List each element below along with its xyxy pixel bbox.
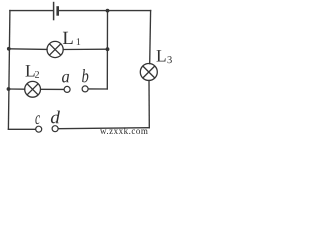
wire top-right (battery - terminal to right corner) bbox=[59, 10, 151, 12]
battery cell bbox=[54, 2, 58, 21]
lamp L3 bbox=[140, 64, 157, 81]
wire L2 branch middle (lamp L2 to terminal a) bbox=[41, 88, 64, 90]
wire right vertical lower (lamp L3 to bottom corner) bbox=[148, 80, 150, 127]
label d bbox=[51, 111, 60, 124]
svg-text:w.zxxk.com: w.zxxk.com bbox=[100, 126, 148, 135]
label a bbox=[62, 74, 69, 83]
terminal c bbox=[36, 126, 42, 132]
wire bottom-left (corner to terminal c) bbox=[8, 128, 35, 130]
terminal b bbox=[82, 86, 88, 92]
wire middle vertical bbox=[106, 11, 108, 89]
watermark bbox=[100, 126, 148, 136]
lamp L2 bbox=[25, 81, 41, 97]
junction node left-L2 bbox=[7, 87, 11, 91]
terminal d bbox=[52, 126, 58, 132]
label L3 bbox=[157, 50, 172, 63]
junction node top-middle bbox=[106, 9, 110, 13]
wire bottom-right (terminal d to right corner) bbox=[58, 128, 149, 129]
label L1 bbox=[63, 32, 80, 45]
junction node left-L1 bbox=[7, 47, 11, 51]
wire L2 branch right (terminal b to middle vertical) bbox=[88, 88, 107, 90]
wire left vertical bbox=[8, 11, 10, 130]
wire L1 branch right (lamp L1 to middle node) bbox=[63, 48, 107, 50]
wire L1 branch left (left node to lamp L1) bbox=[9, 48, 47, 51]
junction node middle-L1 bbox=[106, 47, 110, 51]
label b bbox=[82, 69, 88, 82]
label L2 bbox=[26, 65, 40, 78]
terminal a bbox=[64, 86, 70, 92]
wire L2 branch left (left node to lamp L2) bbox=[9, 88, 25, 90]
wire top-left (battery + terminal to left corner) bbox=[10, 10, 53, 12]
lamp L1 bbox=[47, 41, 63, 57]
wire right vertical upper (to lamp L3) bbox=[149, 11, 152, 64]
label c bbox=[35, 115, 40, 124]
